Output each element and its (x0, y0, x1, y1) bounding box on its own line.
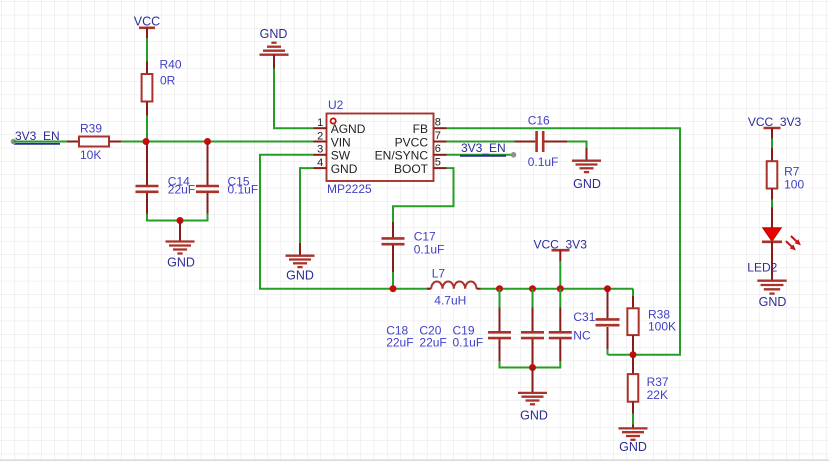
ground (C16) (572, 148, 601, 172)
U2 label (328, 98, 344, 112)
svg-text:FB: FB (413, 122, 428, 136)
junction C14/C15 gnd (177, 217, 184, 224)
svg-text:C31: C31 (573, 310, 595, 324)
svg-text:5: 5 (435, 157, 441, 169)
svg-text:3: 3 (317, 144, 323, 156)
wire EN/SYNC (447, 154, 514, 156)
svg-text:6: 6 (435, 143, 441, 155)
R39 value 10K (80, 148, 101, 162)
U2 pin 1 AGND (317, 117, 366, 136)
capacitor C14 (136, 143, 159, 214)
U2 pin 6 EN/SYNC (375, 143, 441, 162)
svg-text:NC: NC (573, 329, 591, 343)
wire C31 to bottom rail (607, 349, 609, 355)
svg-text:0.1uF: 0.1uF (528, 155, 559, 169)
R40 value 0R (160, 73, 176, 87)
svg-text:R37: R37 (647, 375, 669, 389)
power flag VCC (134, 15, 160, 39)
R40 label (160, 57, 182, 71)
ground (R37) (619, 425, 648, 440)
svg-text:AGND: AGND (331, 122, 366, 136)
resistor R38 (627, 296, 638, 355)
wire BOOT to C17 (393, 168, 454, 222)
wire C18 top (499, 289, 501, 308)
svg-text:R40: R40 (160, 57, 182, 71)
C19 label (453, 324, 475, 338)
svg-text:GND: GND (520, 408, 548, 422)
svg-text:U2: U2 (328, 98, 344, 112)
svg-text:3V3_EN: 3V3_EN (461, 141, 506, 155)
svg-text:8: 8 (435, 117, 441, 129)
R7 label (784, 164, 800, 178)
node A junction (R40/C14) (143, 138, 150, 145)
svg-text:C17: C17 (414, 229, 436, 243)
U2 pin 8 FB (413, 117, 441, 137)
svg-text:GND: GND (167, 256, 195, 270)
C15 value 0.1uF (228, 183, 259, 197)
C16 value 0.1uF (528, 155, 559, 169)
junction R38/R37/FB (630, 351, 637, 358)
C14 value 22uF (168, 183, 195, 197)
power flag VCC_3V3 (output) (534, 237, 588, 261)
svg-text:1: 1 (317, 117, 323, 129)
svg-text:R39: R39 (80, 121, 102, 135)
ground (U2 pin4) (286, 243, 315, 267)
svg-text:C16: C16 (528, 114, 550, 128)
svg-text:GND: GND (286, 269, 314, 283)
U2 pin 3 SW (317, 144, 351, 163)
U2 pin 2 VIN (317, 130, 351, 149)
wire rail to R38 (632, 289, 634, 296)
svg-text:22uF: 22uF (386, 336, 413, 350)
svg-text:0R: 0R (160, 73, 176, 87)
svg-text:0.1uF: 0.1uF (414, 242, 445, 256)
inductor L7 (427, 282, 481, 289)
wire C19 top (559, 289, 561, 308)
svg-text:4: 4 (317, 157, 323, 169)
R37 label (647, 375, 669, 389)
resistor R7 (767, 148, 778, 200)
wire U2 GND pin to ground (300, 168, 314, 243)
C20 label (419, 324, 441, 338)
L7 label (432, 266, 446, 280)
wire C16 to ground (567, 142, 587, 149)
wire C17 to rail (392, 272, 394, 289)
svg-text:GND: GND (331, 162, 358, 176)
svg-text:GND: GND (260, 27, 288, 41)
svg-text:L7: L7 (432, 266, 446, 280)
junction C31/rail (604, 285, 611, 292)
svg-text:22K: 22K (647, 388, 668, 402)
svg-text:7: 7 (435, 130, 441, 142)
svg-text:LED2: LED2 (747, 260, 777, 274)
C15 label (228, 174, 250, 188)
U2 pin 4 GND (317, 157, 358, 176)
svg-text:GND: GND (573, 177, 601, 191)
R37 value 22K (647, 388, 668, 402)
C31 value NC (573, 329, 591, 343)
ground (LED) (757, 281, 786, 294)
U2 pin 7 PVCC (395, 130, 441, 150)
C18 value 22uF (386, 336, 413, 350)
ground (C14/C15) (166, 221, 195, 254)
R7 value 100 (784, 177, 804, 191)
svg-text:EN/SYNC: EN/SYNC (375, 149, 429, 163)
C17 label (414, 229, 436, 243)
svg-text:MP2225: MP2225 (327, 182, 372, 196)
junction C18/rail (496, 285, 503, 292)
svg-text:GND: GND (759, 295, 787, 309)
wire R7 to LED (771, 200, 773, 208)
capacitor C18 (488, 308, 511, 362)
svg-text:BOOT: BOOT (394, 162, 429, 176)
ground (AGND, flipped) (260, 43, 289, 69)
L7 value 4.7uH (434, 294, 466, 308)
ground (output caps) (518, 368, 547, 405)
svg-text:10K: 10K (80, 148, 101, 162)
wire output caps bottoms (500, 361, 561, 368)
capacitor C19 (549, 308, 572, 362)
C17 value 0.1uF (414, 242, 445, 256)
R38 label (648, 308, 670, 322)
svg-text:VIN: VIN (331, 136, 351, 150)
wire R40 to node A (146, 116, 148, 142)
LED2 label (747, 260, 777, 274)
op-amp/IC U2 MP2225 (314, 114, 447, 182)
capacitor C15 (196, 143, 219, 214)
svg-text:0.1uF: 0.1uF (453, 336, 484, 350)
svg-text:100: 100 (784, 177, 804, 191)
junction caps gnd (529, 364, 536, 371)
wire 3V3_EN to R39 (14, 141, 68, 143)
resistor R40 (142, 62, 153, 116)
wire SW to inductor (260, 155, 430, 289)
R39 label (80, 121, 102, 135)
svg-text:22uF: 22uF (168, 183, 195, 197)
wire R39 to U2 VIN (121, 141, 314, 143)
GND label (C14/C15) (167, 256, 195, 270)
C14 label (168, 174, 190, 188)
wire GND to U2 AGND (274, 69, 314, 129)
C16 label (528, 114, 550, 128)
wire VCC to R40 (146, 38, 148, 62)
resistor R37 (628, 355, 639, 414)
svg-text:4.7uH: 4.7uH (434, 294, 466, 308)
svg-text:PVCC: PVCC (395, 136, 429, 150)
wire R37 to ground (632, 414, 634, 425)
wire PVCC to C16 (447, 141, 515, 143)
capacitor C16 (515, 131, 568, 152)
U2 value MP2225 (327, 182, 372, 196)
GND label (U2 pin4) (286, 269, 314, 283)
R38 value 100K (648, 320, 676, 334)
C20 value 22uF (419, 336, 446, 350)
C31 label (573, 310, 595, 324)
LED LED2 (762, 208, 801, 281)
power flag VCC_3V3 (LED) (748, 115, 802, 139)
GND label (LED) (759, 295, 787, 309)
GND label (R37) (619, 440, 647, 454)
C19 value 0.1uF (453, 336, 484, 350)
U2 pin 5 BOOT (394, 157, 441, 177)
capacitor C31 (596, 289, 620, 349)
svg-text:100K: 100K (648, 320, 676, 334)
GND label (C16) (573, 177, 601, 191)
wire output rail (481, 288, 634, 290)
bottom window edge (0, 459, 829, 461)
svg-text:2: 2 (317, 130, 323, 142)
wire FB feedback loop (447, 128, 681, 355)
C18 label (386, 324, 408, 338)
GND label (AGND) (260, 27, 288, 41)
svg-text:VCC: VCC (134, 15, 160, 29)
svg-text:22uF: 22uF (419, 336, 446, 350)
svg-text:0.1uF: 0.1uF (228, 183, 259, 197)
wire bottom feedback rail (608, 354, 634, 356)
junction C19/rail (557, 285, 564, 292)
node B junction (C15) (204, 138, 211, 145)
wire C14/C15 bottoms (147, 214, 208, 221)
GND label (output caps) (520, 408, 548, 422)
resistor R39 (67, 137, 121, 147)
svg-text:GND: GND (619, 440, 647, 454)
capacitor C17 (382, 222, 405, 272)
wire C20 top (532, 289, 534, 308)
net port 3V3_EN (left) (11, 129, 60, 144)
junction C17/rail (390, 285, 397, 292)
svg-text:SW: SW (331, 149, 351, 163)
wire VCC_3V3 to R7 (771, 139, 773, 149)
capacitor C20 (521, 308, 544, 368)
svg-text:R7: R7 (784, 164, 800, 178)
net port 3V3_EN (EN/SYNC) (460, 141, 516, 158)
wire VCC_3V3 to rail (559, 261, 561, 289)
junction C20/rail (529, 285, 536, 292)
